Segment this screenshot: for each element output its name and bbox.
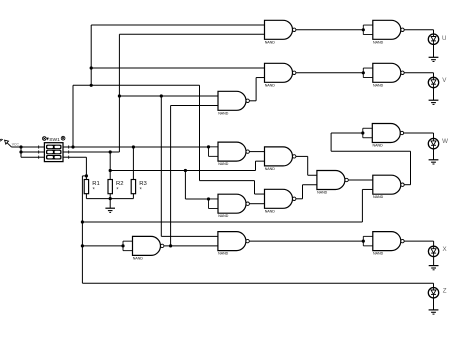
- junction net A branch up: [71, 145, 74, 148]
- nand gate U1A: [265, 20, 296, 44]
- wire net A vertical x91: [90, 25, 92, 85]
- svg-text:W: W: [442, 138, 448, 145]
- probe Z: [428, 288, 438, 315]
- nand gate U5A: [317, 171, 348, 195]
- wire U2B out to probe V: [404, 72, 434, 74]
- wire U7A out to U7B bottom input: [164, 245, 218, 247]
- wire net A to U6B top input: [255, 193, 265, 195]
- wire U5B out feedback to U3B: [404, 184, 411, 186]
- nand gate U5B: [373, 175, 404, 199]
- wire U2A out to U2B: [296, 72, 364, 74]
- nand gate U2B (inverter to V): [362, 63, 405, 87]
- wire probe Z drop: [433, 283, 435, 287]
- svg-text:NAND: NAND: [373, 144, 384, 148]
- svg-text:Z: Z: [443, 288, 447, 295]
- svg-text:NAND: NAND: [133, 256, 144, 260]
- wire net C to U5B bottom input: [362, 188, 372, 190]
- svg-text:R1: R1: [92, 181, 100, 187]
- svg-text:NAND: NAND: [265, 40, 276, 44]
- probe X: [428, 246, 438, 270]
- wire VCC to switch pin2: [21, 151, 39, 153]
- resistor R2: [108, 180, 124, 199]
- probe W: [428, 138, 438, 164]
- wire net C vertical x86: [85, 157, 87, 179]
- wire net C horizontal y222: [82, 221, 362, 223]
- svg-text:NAND: NAND: [373, 83, 384, 87]
- probe U: [428, 34, 438, 62]
- junction net C to U7A: [81, 244, 84, 247]
- nand gate U1B (inverter to U): [362, 20, 405, 44]
- svg-text:NAND: NAND: [373, 195, 384, 199]
- svg-text:SW1: SW1: [49, 137, 60, 143]
- nand gate U6B: [265, 189, 296, 213]
- junction U7A out to U3A: [169, 244, 172, 247]
- nand gate U8A (inverter to X): [362, 232, 405, 256]
- wire U3B out to probe W: [404, 132, 434, 134]
- svg-text:R3: R3: [139, 181, 147, 187]
- svg-text:X: X: [443, 246, 447, 253]
- wire VCC distribution vertical: [20, 147, 22, 157]
- wire net B to U6A tied input: [185, 198, 208, 200]
- wire net A vertical x199: [199, 85, 201, 180]
- wire R3 top lead: [132, 147, 134, 180]
- svg-text:NAND: NAND: [265, 209, 276, 213]
- wire net B to U7B top input: [161, 235, 218, 237]
- junction net A to R3: [132, 145, 135, 148]
- wire net B vertical x185: [184, 171, 186, 199]
- svg-text:U: U: [442, 35, 446, 42]
- junction VCC line2: [19, 150, 22, 153]
- svg-text:NAND: NAND: [218, 252, 229, 256]
- wire U6A out to U6B bottom input: [249, 203, 264, 205]
- wire net A vertical x254: [254, 181, 256, 194]
- wire net B to U3A top input: [119, 95, 218, 97]
- ground under R2: [105, 199, 115, 213]
- svg-text:NAND: NAND: [265, 167, 276, 171]
- wire U1B out to probe U: [404, 29, 434, 31]
- VCC power arrow: [0, 139, 12, 147]
- wire net A horizontal y85: [73, 84, 200, 86]
- wire U7B out to U8A: [249, 240, 363, 242]
- wire U3A out to U2A bottom input: [249, 100, 256, 102]
- junction net B to R2: [109, 150, 112, 153]
- wire net A to U1A top input: [91, 24, 264, 26]
- wire VCC to switch: [12, 146, 39, 148]
- junction net B to U7B: [160, 94, 163, 97]
- svg-text:NAND: NAND: [218, 214, 229, 218]
- probe V: [428, 77, 438, 104]
- junction net C to U5B: [81, 220, 84, 223]
- wire net A y180: [200, 180, 255, 182]
- wire net A vertical x73: [72, 85, 74, 147]
- wire U5A out to U5B top input: [348, 179, 373, 181]
- wire U4A out to U4B top input: [249, 151, 264, 153]
- wire VCC to switch pin3: [21, 156, 39, 158]
- switch SW1 label: [42, 136, 65, 143]
- nand gate U4A (inverter of A): [207, 142, 250, 166]
- wire net A from switch to U4A input: [69, 146, 209, 148]
- wire U1A out to U1B: [296, 29, 364, 31]
- wire inverter C to U3A bottom input: [171, 105, 218, 107]
- resistor R3: [131, 180, 147, 199]
- wire net C branch left: [82, 175, 86, 177]
- nand gate U7A (inverter of C): [121, 236, 163, 260]
- svg-text:NAND: NAND: [218, 111, 229, 115]
- svg-text:NAND: NAND: [317, 191, 328, 195]
- wire net C to probe Z: [82, 282, 433, 284]
- wire net B horizontal y170: [110, 170, 255, 172]
- wire net C from switch: [69, 156, 87, 158]
- svg-text:R2: R2: [116, 181, 124, 187]
- nand gate U7B: [218, 232, 249, 256]
- wire net B to U1A bottom input: [119, 33, 264, 35]
- junction net C branch: [85, 174, 88, 177]
- wire U6B out to U5A bottom input: [296, 198, 303, 200]
- wire net C to U7A tied input: [82, 245, 123, 247]
- junction net B y170 branch: [109, 169, 112, 172]
- wire net A to U2A top input: [91, 67, 264, 69]
- svg-text:VCC: VCC: [12, 143, 20, 147]
- wire inverter C vertical x170: [170, 106, 172, 246]
- junction net A to U2A: [90, 66, 93, 69]
- junction net A x91: [90, 84, 93, 87]
- wire net B vertical x161: [160, 96, 162, 236]
- switch SW1 body: [44, 143, 63, 162]
- switch SW1 pins: [39, 145, 69, 158]
- junction net B to U6A: [184, 169, 187, 172]
- nand gate U6A (inverter of B): [207, 194, 250, 218]
- wire net B to U4B bottom input: [256, 160, 265, 162]
- nand gate U3B (inverter to W): [361, 124, 404, 148]
- wire net C vertical x362: [361, 189, 363, 222]
- svg-text:NAND: NAND: [265, 83, 276, 87]
- svg-text:NAND: NAND: [373, 252, 384, 256]
- svg-text:NAND: NAND: [218, 162, 229, 166]
- nand gate U4B: [265, 147, 296, 171]
- resistor ground rail: [86, 198, 133, 200]
- junction VCC line1: [19, 145, 22, 148]
- wire net B from switch: [69, 151, 120, 153]
- wire R2 top lead: [109, 152, 111, 180]
- nand gate U3A: [218, 91, 249, 115]
- nand gate U2A: [265, 63, 296, 87]
- wire net C vertical x82: [81, 176, 83, 283]
- junction net B to U3A: [118, 94, 121, 97]
- wire U4B out to U5A top input: [296, 155, 308, 157]
- wire U8A out to probe X: [404, 240, 434, 242]
- svg-text:NAND: NAND: [373, 40, 384, 44]
- wire net B vertical x255 to U4B: [255, 161, 257, 170]
- wire net B vertical x119: [118, 34, 120, 152]
- resistor R1: [84, 180, 100, 199]
